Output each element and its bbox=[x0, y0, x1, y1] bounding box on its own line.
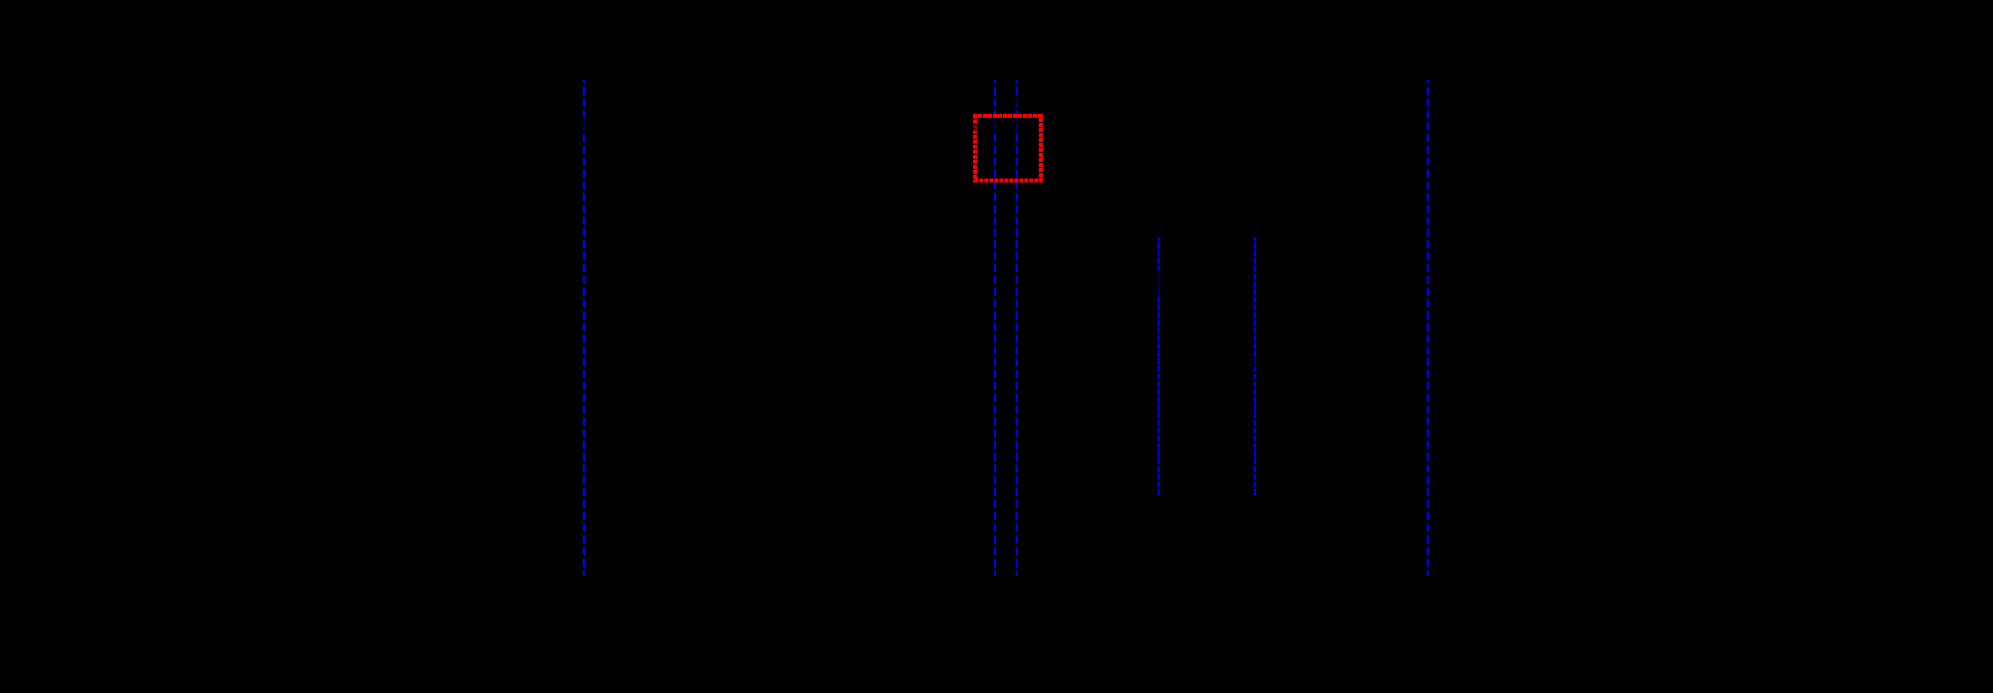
wire: blue dashed cursor line 4 (right) bbox=[1427, 80, 1429, 576]
wire: black ink overlap dim on line 6 bbox=[1252, 356, 1258, 368]
wire: blue dashed cursor line 1 (left) bbox=[583, 80, 585, 576]
wire: black ink overlap dim on line 5 bbox=[1156, 271, 1162, 296]
wire: black ink overlap dim on line 1 bbox=[581, 117, 587, 131]
wire: blue dashed cursor line 2 (pair left) bbox=[994, 80, 996, 576]
wire: black ink overlap dim on line 3 (upper) bbox=[1014, 97, 1020, 106]
wire: blue dashed cursor line 3 (pair right) bbox=[1016, 80, 1018, 576]
node: red dotted highlight rectangle bbox=[975, 116, 1041, 181]
wire: blue fine-dashed line 6 (short, right of pair) bbox=[1254, 238, 1256, 497]
wire: black ink overlap dim on red rect left edge bbox=[972, 124, 979, 131]
wire: black ink overlap dim on line 3 (lower) bbox=[1014, 122, 1020, 131]
wire: blue fine-dashed line 5 (short, left of pair) bbox=[1158, 238, 1160, 497]
wire: black ink overlap dim on line 2 bbox=[992, 120, 998, 133]
